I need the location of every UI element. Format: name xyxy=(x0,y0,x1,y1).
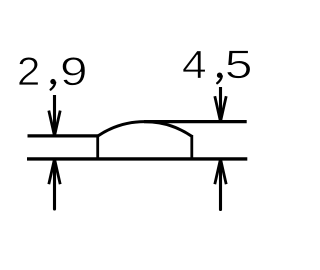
dimension arrow down to crest line (4,5 upper) xyxy=(215,87,226,122)
dome right edge xyxy=(190,135,193,159)
dimension text digit 4 xyxy=(182,42,207,86)
crest extension line xyxy=(144,120,247,123)
dimension arrow up to bottom line (2,9 lower) xyxy=(49,159,60,209)
svg-text:2: 2 xyxy=(17,49,41,94)
dome left edge xyxy=(96,135,99,159)
dimension arrow up to bottom line (4,5 lower) xyxy=(215,159,226,210)
top surface line (left of dome) xyxy=(28,134,100,137)
dimension text digit 5 xyxy=(225,42,253,87)
dimension text digit 9 xyxy=(60,49,88,94)
bottom surface line xyxy=(27,157,247,160)
dimension text comma of 2,9 xyxy=(50,79,55,90)
svg-text:4: 4 xyxy=(182,42,207,86)
dome arc xyxy=(98,122,192,137)
dimension text comma of 4,5 xyxy=(217,73,222,84)
dimension text digit 2 xyxy=(17,49,41,94)
svg-text:9: 9 xyxy=(60,49,88,94)
dimension arrow down to top line (2,9 upper) xyxy=(49,95,60,136)
svg-text:5: 5 xyxy=(225,42,253,87)
